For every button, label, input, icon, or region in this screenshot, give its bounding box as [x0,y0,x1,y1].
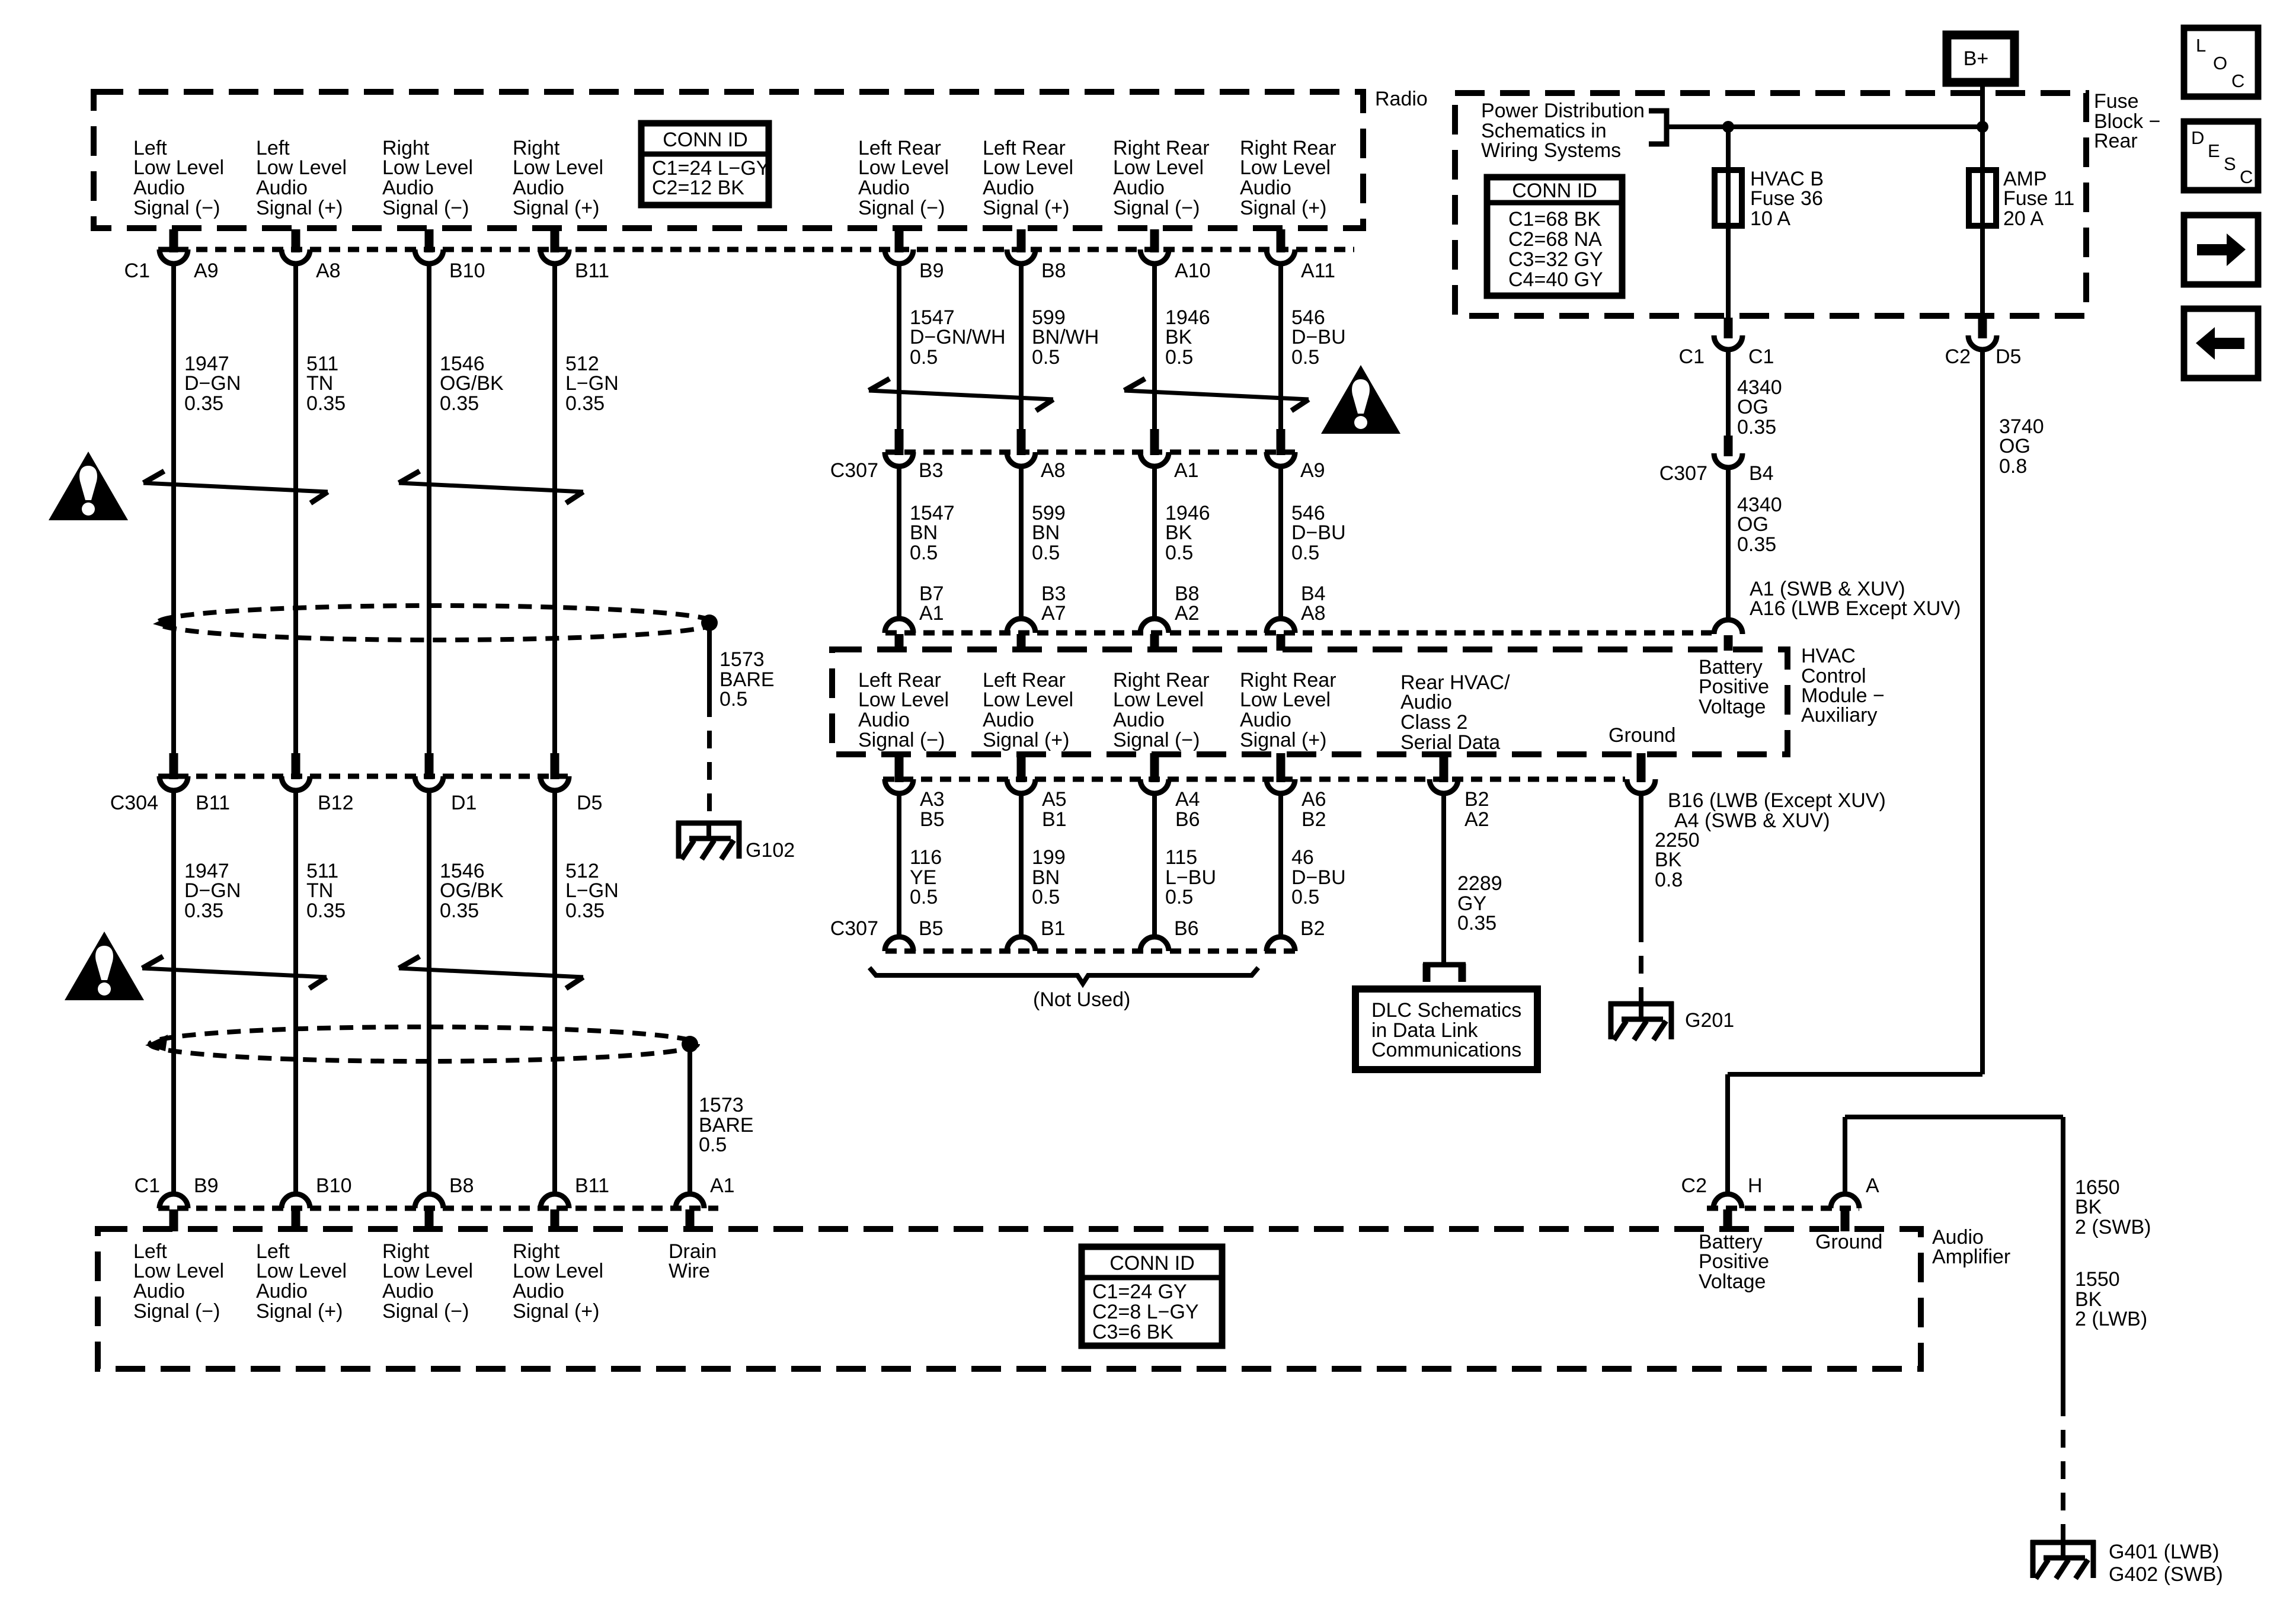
fuse block box (dashed) [1455,93,2086,316]
HVAC battery positive voltage label [1699,656,1769,718]
svg-text:0.35: 0.35 [565,392,605,415]
wire rear 3 upper [1152,264,1157,429]
pin B11 (C304) [196,792,230,814]
svg-text:Fuse: Fuse [2094,90,2139,113]
svg-text:B6: B6 [1175,808,1200,831]
pin pair B2/A2 (serial) [1464,788,1489,831]
svg-text:C1=68 BK: C1=68 BK [1508,208,1601,231]
svg-text:B1: B1 [1041,917,1066,940]
svg-text:A2: A2 [1464,808,1489,831]
wire label 512 lower [565,860,619,922]
svg-text:A9: A9 [1300,459,1325,482]
svg-text:B10: B10 [449,260,485,282]
svg-text:C2=8 L−GY: C2=8 L−GY [1092,1301,1199,1323]
svg-text:Signal (+): Signal (+) [1240,197,1326,219]
svg-text:BK: BK [1165,326,1192,348]
svg-text:Radio: Radio [1375,88,1428,110]
wire label 1946 rear upper [1165,306,1210,369]
twisted-pair arrow front lower left [142,956,327,988]
svg-text:Low Level: Low Level [256,1260,347,1282]
svg-text:0.5: 0.5 [720,688,747,710]
svg-text:B9: B9 [919,260,944,282]
svg-text:C: C [2240,167,2253,187]
wire rear 1 upper [897,264,901,429]
(Not Used) label [1033,988,1130,1011]
svg-text:Audio: Audio [1113,709,1165,731]
svg-text:10 A: 10 A [1750,207,1790,230]
svg-text:0.35: 0.35 [1737,533,1776,556]
wire not-used 3 [1152,793,1157,937]
radio front output label 4 [513,137,603,219]
amp ground wire vertical [1843,1117,1847,1194]
svg-text:BN: BN [1032,521,1060,544]
HVAC battery input stub [1724,635,1733,651]
wire label 546 rear upper [1291,306,1346,369]
AMP exit arc (C2) [1968,335,1997,350]
pin pair A5/B1 [1042,788,1067,831]
wire label 599 rear middle [1032,502,1066,564]
ground G401/G402 [2030,1540,2096,1579]
pin A1 (C307) [1174,459,1199,482]
svg-text:A: A [1866,1174,1879,1197]
svg-text:B8: B8 [1041,260,1066,282]
svg-text:Signal (−): Signal (−) [133,197,220,219]
pin pair B4/A8 [1301,582,1326,625]
radio CONN ID table [641,123,769,205]
HVAC module input label 4 [1240,669,1336,751]
connector row C307 rear (dotted) [885,450,1295,455]
svg-text:B12: B12 [318,792,354,814]
HVAC module input label 2 [983,669,1073,751]
wire front 2 upper [293,264,298,753]
C307 not-used arc 3 [1140,937,1169,951]
drain junction dot upper [701,614,718,631]
pin B16 label [1668,789,1886,812]
pin A9 [194,260,219,282]
fuse block distribution wire [1667,124,1982,129]
amp input stub 1 [170,1209,178,1231]
svg-text:E: E [2208,140,2220,161]
HVAC input stub 4 [1277,634,1285,651]
svg-text:D−GN: D−GN [184,372,241,395]
HVAC input arc 4 [1267,619,1295,633]
svg-text:B2: B2 [1302,808,1326,831]
amp input label 4 [513,1240,603,1323]
svg-text:A4: A4 [1175,788,1200,811]
wire label 1573 BARE lower [699,1094,754,1156]
svg-text:C4=40 GY: C4=40 GY [1508,268,1603,291]
amp ground wire horizontal [1845,1115,2063,1119]
svg-text:1573: 1573 [720,648,765,671]
connector arc rear 3 [1140,249,1169,264]
twisted-pair arrow rear right [1124,379,1309,411]
power distribution note [1481,100,1645,162]
pin pair A6/B2 [1302,788,1326,831]
AMP exit stub [1978,318,1987,338]
wire 3740 OG long vertical [1980,350,1985,1074]
svg-text:A8: A8 [316,260,341,282]
connector C307 label (battery) [1659,462,1707,485]
svg-text:CONN ID: CONN ID [1109,1252,1195,1275]
svg-text:0.35: 0.35 [1737,416,1776,438]
wire rear 1 middle [897,466,901,619]
svg-text:OG: OG [1737,396,1769,418]
svg-text:Class 2: Class 2 [1400,711,1467,734]
wire label 1547 rear middle [910,502,955,564]
svg-text:Low Level: Low Level [1113,689,1204,711]
HVAC output arc 1 [885,779,913,793]
svg-text:D1: D1 [451,792,477,814]
svg-text:G102: G102 [746,839,795,862]
legend icon DESC [2184,121,2258,190]
svg-text:0.35: 0.35 [306,900,346,922]
pin A9 (C307) [1300,459,1325,482]
wire front 2 lower [293,790,298,1194]
svg-text:B10: B10 [316,1174,352,1197]
svg-text:L−GN: L−GN [565,879,619,902]
C304 arc 2 [282,776,310,790]
svg-text:A6: A6 [1302,788,1326,811]
ground output arc [1627,779,1655,793]
wire label 512 L−GN [565,353,619,415]
svg-text:Signal (+): Signal (+) [983,197,1069,219]
serial data wire 2289 [1441,793,1446,962]
svg-text:Low Level: Low Level [382,156,473,179]
svg-text:Signal (+): Signal (+) [983,729,1069,751]
drain wire 1573 upper solid [707,623,712,699]
svg-text:Power Distribution: Power Distribution [1481,100,1645,122]
connector C1 label (fuse) [1679,345,1705,368]
wire label 1946 rear middle [1165,502,1210,564]
svg-text:Audio: Audio [513,1280,564,1302]
amp CONN ID table [1082,1247,1222,1346]
svg-text:L−GN: L−GN [565,372,619,395]
svg-text:Audio: Audio [1240,709,1291,731]
pin pair A3/B5 [920,788,945,831]
svg-text:D: D [2191,127,2204,148]
svg-text:Audio: Audio [983,709,1034,731]
amplifier input connector row left (dotted) [158,1206,718,1211]
C307 arc rear 3 [1140,452,1169,466]
svg-text:Low Level: Low Level [983,689,1073,711]
svg-text:0.35: 0.35 [440,392,479,415]
C307 stub rear 4 [1277,429,1285,455]
amp input stub 3 [425,1209,434,1231]
wire rear 2 middle [1019,466,1024,619]
svg-text:A7: A7 [1041,602,1066,625]
svg-text:Audio: Audio [382,177,434,199]
svg-text:20 A: 20 A [2003,207,2044,230]
wire label 1546 lower [440,860,504,922]
svg-text:Signal (+): Signal (+) [1240,729,1326,751]
wire label 199 not-used [1032,846,1066,908]
radio front output label 2 [256,137,347,219]
wire label 4340 OG lower [1737,494,1782,556]
svg-text:L: L [2196,35,2206,56]
connector C304 label [110,792,158,814]
svg-text:Low Level: Low Level [382,1260,473,1282]
radio label [1375,88,1428,110]
wire front 4 upper [552,264,557,753]
pin B3 (C307) [919,459,944,482]
svg-text:Low Level: Low Level [513,156,603,179]
connector C307 label (lower) [830,917,878,940]
radio pin stub rear 1 [895,229,904,252]
legend icon arrow right [2184,215,2258,284]
svg-text:Signal (−): Signal (−) [1113,197,1200,219]
radio front output label 3 [382,137,473,219]
svg-text:B6: B6 [1174,917,1199,940]
wire rear 4 upper [1278,264,1283,429]
svg-text:Signal (+): Signal (+) [256,1300,343,1323]
svg-text:C1: C1 [1748,345,1774,368]
svg-text:Audio: Audio [858,709,910,731]
HVAC Control Module - Auxiliary label [1801,645,1885,726]
svg-text:Signal (−): Signal (−) [382,197,469,219]
ground wire 2250 dashed [1639,924,1643,1003]
svg-text:0.35: 0.35 [440,900,479,922]
svg-text:Wiring Systems: Wiring Systems [1481,139,1621,162]
svg-text:Low Level: Low Level [256,156,347,179]
svg-text:DLC Schematics: DLC Schematics [1371,999,1521,1022]
svg-text:B16 (LWB (Except XUV): B16 (LWB (Except XUV) [1668,789,1886,812]
pin A8 (C307) [1041,459,1066,482]
HVAC output arc 4 [1267,779,1295,793]
C307 arc rear 2 [1007,452,1035,466]
svg-text:A3: A3 [920,788,945,811]
svg-text:Low Level: Low Level [133,1260,224,1282]
amp connector C2 label [1681,1174,1707,1197]
svg-text:C2=12 BK: C2=12 BK [652,177,744,199]
radio pin stub front 3 [425,229,434,252]
svg-text:0.5: 0.5 [1165,346,1193,369]
svg-text:Low Level: Low Level [1113,156,1204,179]
svg-text:D−GN/WH: D−GN/WH [910,326,1006,348]
radio rear output label 2 [983,137,1073,219]
amp ground stub [1841,1209,1850,1231]
pin B6 (not used) [1174,917,1199,940]
svg-text:Low Level: Low Level [983,156,1073,179]
G102 label [746,839,795,862]
svg-text:0.5: 0.5 [1291,346,1319,369]
HVAC module input label 3 [1113,669,1210,751]
connector row C304 (dotted) [158,774,570,779]
svg-text:0.8: 0.8 [1655,869,1683,891]
svg-text:Low Level: Low Level [513,1260,603,1282]
svg-text:Fuse 36: Fuse 36 [1750,187,1823,210]
C307 arc rear 1 [885,452,913,466]
radio pin stub rear 3 [1150,229,1159,252]
amp battery stub [1723,1209,1732,1231]
C307 not-used arc 1 [885,937,913,951]
svg-text:A16 (LWB Except XUV): A16 (LWB Except XUV) [1750,597,1961,620]
svg-text:D−BU: D−BU [1291,521,1346,544]
svg-text:OG: OG [1737,513,1769,536]
svg-text:2289: 2289 [1457,872,1502,895]
svg-text:0.5: 0.5 [1291,886,1319,908]
HVAC module output connector row (dotted) [883,777,1625,782]
svg-text:C1: C1 [135,1174,160,1197]
legend icon arrow left [2184,309,2258,378]
radio pin stub rear 4 [1277,229,1285,252]
svg-text:H: H [1748,1174,1763,1197]
battery feed terminal B+ [1947,35,2014,82]
svg-text:CONN ID: CONN ID [663,129,748,151]
svg-text:C307: C307 [1659,462,1707,485]
amp input label 3 [382,1240,473,1323]
pin pair B7/A1 [919,582,944,625]
HVAC B exit arc (C1) [1714,335,1742,350]
pin pair B8/A2 [1175,582,1200,625]
svg-text:C1: C1 [124,260,150,282]
pin B5 (not used) [919,917,944,940]
Fuse Block - Rear label [2094,90,2160,152]
svg-text:G401 (LWB): G401 (LWB) [2109,1541,2219,1563]
pin B8 [1041,260,1066,282]
svg-text:Low Level: Low Level [1240,156,1331,179]
svg-text:S: S [2224,153,2236,174]
HVAC input stub 2 [1017,634,1026,651]
pin B4 [1749,462,1774,485]
svg-text:B2: B2 [1300,917,1325,940]
pin A10 [1175,260,1211,282]
svg-text:D5: D5 [577,792,602,814]
svg-text:C2=68 NA: C2=68 NA [1508,228,1602,251]
C304 arc 3 [415,776,443,790]
wire label 511 TN [306,353,346,415]
svg-text:OG: OG [1999,435,2030,457]
amplifier input connector row right (dotted) [1707,1206,1859,1211]
legend icon LOC [2184,28,2258,97]
amp input label 2 [256,1240,347,1323]
svg-text:C2: C2 [1945,345,1971,368]
svg-text:Signal (−): Signal (−) [382,1300,469,1323]
svg-text:Low Level: Low Level [1240,689,1331,711]
svg-text:A8: A8 [1041,459,1066,482]
svg-text:Audio: Audio [256,1280,308,1302]
wire label 1547 rear upper [910,306,1006,369]
amp pin B8 [449,1174,474,1197]
svg-text:199: 199 [1032,846,1066,869]
svg-text:BK: BK [1655,849,1682,871]
svg-text:2 (SWB): 2 (SWB) [2075,1216,2151,1238]
amp pin B10 [316,1174,352,1197]
svg-text:1550: 1550 [2075,1268,2120,1291]
G401 label [2109,1541,2219,1563]
amp input arc 4 [541,1194,569,1208]
svg-text:OG/BK: OG/BK [440,372,504,395]
svg-text:B11: B11 [196,792,230,814]
radio rear output label 4 [1240,137,1336,219]
connector arc front 4 [541,249,569,264]
svg-text:Communications: Communications [1371,1039,1521,1061]
ground G102 [676,821,741,859]
svg-text:0.35: 0.35 [1457,912,1496,934]
wire label 1546 OG/BK [440,353,504,415]
G201 label [1685,1009,1734,1032]
wire label 599 rear upper [1032,306,1099,369]
C307 stub rear 3 [1150,429,1159,455]
connector arc front 1 [159,249,188,264]
twisted-pair arrow rear left [869,379,1053,411]
svg-text:Signal (+): Signal (+) [513,197,599,219]
C307 not-used arc 4 [1267,937,1295,951]
svg-text:Audio: Audio [133,1280,185,1302]
svg-text:D5: D5 [1996,345,2021,368]
wire label 1947 lower [184,860,241,922]
radio rear output label 1 [858,137,949,219]
connector arc rear 2 [1007,249,1035,264]
HVAC output stub 1 [895,753,904,782]
amp pin A [1866,1174,1879,1197]
connector arc front 3 [415,249,443,264]
HVAC ground label [1609,724,1675,747]
C304 stub 2 [292,753,300,779]
amp input stub 4 [551,1209,559,1231]
HVAC input arc 2 [1007,619,1035,633]
wire front 4 lower [552,790,557,1194]
warning triangle 2 [65,932,144,1000]
power distribution bracket [1649,111,1667,144]
amp input stub 2 [292,1209,300,1231]
svg-text:Signal (+): Signal (+) [256,197,343,219]
wire label 4340 OG upper [1737,376,1782,438]
pin D5 (C304) [577,792,602,814]
svg-text:B5: B5 [920,808,945,831]
svg-text:Audio: Audio [256,177,308,199]
ground output stub [1637,753,1646,782]
amp drain stub [686,1209,695,1231]
amp input label 1 [133,1240,224,1323]
svg-text:C2: C2 [1681,1174,1707,1197]
C304 stub 3 [425,753,434,779]
wire label 1650 BK [2075,1176,2151,1238]
svg-text:BN: BN [910,521,938,544]
C307 not-used arc 2 [1007,937,1035,951]
svg-text:116: 116 [910,846,942,869]
svg-text:0.5: 0.5 [699,1134,727,1156]
svg-text:Ground: Ground [1815,1231,1882,1253]
svg-text:(Not Used): (Not Used) [1033,988,1130,1011]
svg-text:Audio: Audio [1400,691,1452,713]
C304 stub 4 [551,753,559,779]
amp battery positive voltage label [1699,1231,1769,1293]
amp pin B9 [194,1174,219,1197]
svg-text:Signal (−): Signal (−) [133,1300,220,1323]
svg-text:G402 (SWB): G402 (SWB) [2109,1563,2223,1586]
fuse block CONN ID table [1487,177,1622,296]
connector arc front 2 [282,249,310,264]
svg-text:C1: C1 [1679,345,1705,368]
HVAC input stub 3 [1150,634,1159,651]
serial data arc [1430,779,1458,793]
HVAC output arc 3 [1140,779,1169,793]
fuse AMP (Fuse 11) [1969,170,1996,226]
svg-text:A1: A1 [1174,459,1199,482]
svg-text:0.5: 0.5 [910,886,938,908]
HVAC output stub 4 [1277,753,1285,782]
pin D5 (fuse) [1996,345,2021,368]
svg-text:G201: G201 [1685,1009,1734,1032]
svg-text:Audio: Audio [382,1280,434,1302]
HVAC module input label 1 [858,669,949,751]
svg-text:0.5: 0.5 [910,346,938,369]
C304 arc 1 [159,776,188,790]
Rear HVAC serial data label [1400,671,1510,754]
G402 label [2109,1563,2223,1586]
svg-text:A1: A1 [710,1174,735,1197]
svg-text:HVAC: HVAC [1801,645,1856,667]
